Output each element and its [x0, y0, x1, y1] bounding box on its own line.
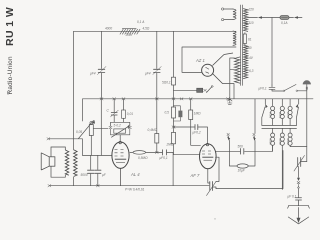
potentiometer P3 grid (boxed)	[111, 129, 130, 135]
svg-text:μF 0,1: μF 0,1	[287, 195, 297, 199]
resistor R8 2M	[172, 132, 176, 143]
potentiometer P2	[89, 125, 93, 136]
svg-text:50: 50	[248, 46, 252, 50]
wave switch rail y125.4	[262, 124, 297, 126]
svg-text:500: 500	[238, 145, 244, 149]
node X right box corner	[128, 126, 131, 128]
node junction x228 (ground)	[227, 98, 230, 100]
svg-text:0300: 0300	[286, 138, 290, 145]
svg-text:AL 4: AL 4	[130, 172, 140, 177]
svg-text:1110: 1110	[286, 112, 290, 118]
ground at transformer	[228, 99, 232, 105]
wire AL4 cathode	[120, 168, 122, 185]
svg-text:0100: 0100	[278, 138, 282, 145]
wire AF7 aux y157.2	[216, 157, 220, 181]
wire x234 from rectifier output	[223, 84, 235, 99]
switch S1 antenna	[283, 90, 285, 92]
wire x255 to bus	[254, 99, 256, 133]
coil L5	[272, 128, 274, 133]
wire speaker bus y139	[48, 139, 82, 156]
svg-text:0300: 0300	[268, 138, 272, 145]
wire grid to AL4	[119, 135, 121, 143]
wire AF7 anode y151.3	[216, 145, 273, 151]
svg-text:4,5Ω: 4,5Ω	[143, 27, 150, 31]
wire AL4 anode line y155.4	[83, 154, 113, 156]
capacitor C4	[88, 170, 94, 173]
coil L7	[289, 128, 291, 133]
capacitor C5	[95, 170, 101, 173]
svg-text:0,05: 0,05	[76, 130, 82, 134]
capacitor C3 antenna coupling	[269, 85, 283, 91]
power transformer T1 primary winding upper	[224, 9, 233, 20]
heater leads AZ1	[224, 53, 233, 55]
svg-text:10μF: 10μF	[238, 169, 246, 173]
svg-text:μF0,1: μF0,1	[159, 156, 168, 160]
wire heater/tap line y90.7	[174, 90, 197, 92]
loudspeaker LS	[41, 147, 65, 177]
node junction x156.8	[155, 98, 158, 100]
wire vertical x101.5 (C1 branch)	[101, 31, 103, 99]
svg-text:RU 1 W: RU 1 W	[4, 7, 16, 46]
earth bar	[288, 206, 310, 209]
svg-text:5-0,2: 5-0,2	[114, 124, 121, 128]
tuning capacitor C12	[298, 158, 301, 167]
node X left box corner	[109, 126, 112, 128]
wire RC join	[111, 122, 130, 126]
wire cap branch x90.7	[90, 155, 92, 185]
wire vertical x156.8 (C2 branch)	[156, 31, 158, 99]
switch arm S2b	[254, 136, 255, 152]
svg-text:AZ 1: AZ 1	[195, 58, 205, 63]
svg-text:6,3: 6,3	[249, 69, 254, 73]
resistor R3 barretter in winding	[243, 34, 246, 44]
wire cap branch x101	[100, 99, 102, 156]
svg-text:110: 110	[249, 21, 254, 25]
resistor R4 grid leak	[123, 99, 125, 123]
svg-text:μF0,2: μF0,2	[192, 131, 201, 135]
bypass loop with choke	[229, 151, 255, 166]
svg-text:Radio-Union: Radio-Union	[7, 56, 14, 94]
svg-text:μF4: μF4	[89, 72, 96, 76]
power transformer T1 HV secondary	[230, 58, 235, 99]
wire AF7 cathode + trimmer C10	[208, 169, 210, 183]
resistor R2 on divider	[172, 77, 176, 85]
svg-text:0,4MΩ: 0,4MΩ	[148, 128, 158, 132]
svg-text:5000: 5000	[81, 173, 88, 177]
svg-text:2000: 2000	[268, 112, 272, 120]
transformer tap leads	[245, 10, 249, 70]
switch arrow S3b	[297, 99, 299, 126]
resistor R6 0.4M	[156, 99, 158, 153]
earth arrow	[298, 208, 300, 220]
coil L3	[281, 99, 283, 107]
wire top bus y31	[74, 30, 236, 32]
transformer core	[241, 5, 243, 85]
node junction x156.8 on y152.4	[155, 151, 158, 153]
wire main bus y98.8	[83, 98, 313, 100]
divider chain x173.5	[174, 99, 200, 155]
fuse F1	[280, 16, 289, 20]
wire L6 to reaction rail	[281, 145, 283, 189]
switch contact X x298.5	[297, 182, 300, 184]
switch arrow S3a	[262, 99, 266, 126]
node junction x101.5	[100, 98, 103, 100]
svg-text:0,01: 0,01	[127, 112, 133, 116]
capacitor C13 earth	[296, 198, 302, 206]
capacitor C9 screen	[195, 125, 198, 130]
wire fuse line y17.5	[248, 17, 303, 19]
transformer secondary winding right (mains taps)	[243, 9, 247, 32]
svg-text:μF0,1: μF0,1	[258, 87, 267, 91]
dirt speck	[7, 92, 9, 94]
wire x73.6 transformer to buses	[73, 177, 75, 186]
svg-text:1MΩ: 1MΩ	[194, 112, 201, 116]
wire mains-antenna drop x272	[271, 18, 273, 86]
resistor R1 mains dropper (hatched)	[122, 27, 136, 29]
coil L4	[289, 99, 291, 107]
screen line y127	[174, 127, 208, 144]
coil L6	[281, 128, 283, 133]
output tube AL4	[112, 141, 129, 185]
rectifier tube AZ1	[202, 53, 233, 84]
connector plug P1	[197, 88, 203, 92]
wire pot wiper down	[90, 136, 92, 156]
capacitor C1	[98, 69, 105, 72]
title Radio-Union RU 1 W	[4, 7, 16, 95]
svg-text:0,5MΩ: 0,5MΩ	[138, 156, 148, 160]
antenna symbol	[306, 84, 308, 98]
svg-text:6000: 6000	[278, 112, 282, 119]
power transformer T1 primary winding lower	[233, 31, 236, 45]
wire reaction line y188.6	[216, 151, 283, 189]
svg-text:0,1 A: 0,1 A	[137, 20, 144, 24]
wire antenna branch x306.8	[306, 99, 308, 162]
resistor R9 from bus	[191, 99, 201, 146]
svg-text:4000: 4000	[105, 27, 112, 31]
output transformer T2	[65, 150, 77, 177]
capacitor C6 grid	[111, 99, 117, 123]
capacitor C11 in anode line	[241, 149, 244, 155]
wire bottom bus y185.7	[49, 185, 209, 187]
wire left vertical x73.6	[73, 31, 75, 150]
svg-text:5Ω0,1: 5Ω0,1	[162, 81, 171, 85]
svg-text:AF 7: AF 7	[190, 173, 200, 178]
svg-text:0,1A: 0,1A	[281, 21, 288, 25]
volume potentiometer P2 feed	[82, 99, 84, 121]
capacitor C7 coupling	[163, 150, 167, 155]
svg-text:220: 220	[248, 8, 255, 12]
svg-text:30W: 30W	[126, 33, 134, 37]
wire speaker loop	[51, 147, 65, 177]
choke L1 (oval)	[237, 164, 248, 168]
RF tube AF7	[200, 143, 217, 168]
wire vertical x173.5 divider	[173, 31, 175, 99]
wire HT line y47 to rectifier	[182, 47, 236, 72]
capacitor C8 electrolytic	[174, 106, 181, 121]
coil L2	[272, 99, 274, 107]
svg-text:61: 61	[248, 38, 252, 42]
switch arm S2a	[228, 136, 229, 152]
capacitor C2	[154, 69, 161, 72]
wave switch rail y128.4	[262, 127, 297, 129]
resistor R7	[172, 107, 176, 118]
wire pot to grid box	[93, 128, 107, 130]
resistor R5 (oval)	[133, 151, 146, 155]
svg-text:μF4: μF4	[144, 72, 151, 76]
svg-text:2MΩ: 2MΩ	[166, 142, 174, 146]
coil labels rotated	[268, 112, 290, 145]
svg-text:0,5: 0,5	[165, 111, 170, 115]
node X at 173.5,127	[172, 126, 175, 128]
coupling line y152.4 to AL4 grid circuit	[130, 152, 173, 185]
svg-text:P=W 0,4/0,61: P=W 0,4/0,61	[125, 188, 145, 192]
